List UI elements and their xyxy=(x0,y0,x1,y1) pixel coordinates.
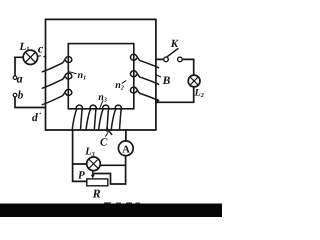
coil n2 (3 turns, right limb) xyxy=(130,54,158,103)
node c stub xyxy=(38,55,46,58)
bottom black bar xyxy=(0,204,222,218)
wire lamp L2 bottom return xyxy=(156,87,194,102)
wire outer bottom xyxy=(46,129,156,131)
lamp L1 xyxy=(23,50,37,64)
coil n3 (4 turns, bottom limb) xyxy=(72,105,121,134)
svg-text:K: K xyxy=(170,38,179,50)
wire switch to lamp L2 xyxy=(183,59,194,75)
wire ammeter bottom zigzag xyxy=(93,156,126,184)
pointer B xyxy=(156,75,161,77)
pointer C xyxy=(105,132,108,137)
svg-text:R: R xyxy=(92,187,101,201)
svg-text:b: b xyxy=(18,89,24,101)
terminal b xyxy=(13,93,17,97)
wire outer top xyxy=(46,18,156,20)
svg-text:P: P xyxy=(78,170,85,182)
svg-text:C: C xyxy=(100,136,108,148)
transformer core xyxy=(68,44,134,109)
wire outer left xyxy=(45,19,47,130)
rheostat R box xyxy=(87,179,108,186)
lamp L2 xyxy=(188,75,200,87)
svg-text:A: A xyxy=(122,145,130,156)
svg-text:a: a xyxy=(17,72,23,86)
rheostat slider arrow xyxy=(92,171,94,176)
pointer n3 xyxy=(100,100,104,109)
switch K lever xyxy=(167,49,178,57)
pointer n2 xyxy=(122,81,127,84)
ammeter A xyxy=(118,141,133,156)
wire lamp L3 left xyxy=(73,163,87,165)
svg-text:B: B xyxy=(162,75,171,87)
text remnant specks above bar xyxy=(104,202,111,203)
switch contact left xyxy=(164,57,169,62)
terminal a xyxy=(13,76,17,80)
wire ammeter top xyxy=(125,130,127,141)
coil n1 (3 turns, left limb) xyxy=(42,57,71,105)
svg-text:c: c xyxy=(38,41,44,55)
wire switch stub xyxy=(156,58,164,60)
pointer n1 xyxy=(69,72,76,74)
wire terminal b down and right to node d xyxy=(15,97,46,108)
wire lamp L1 to terminal a xyxy=(15,57,23,76)
switch contact right xyxy=(178,57,183,62)
wire left drop to rheostat xyxy=(73,130,87,181)
lamp L3 xyxy=(87,157,101,171)
svg-text:d: d xyxy=(32,112,38,124)
wire outer right xyxy=(155,19,157,130)
wire lamp L3 right xyxy=(100,164,125,166)
